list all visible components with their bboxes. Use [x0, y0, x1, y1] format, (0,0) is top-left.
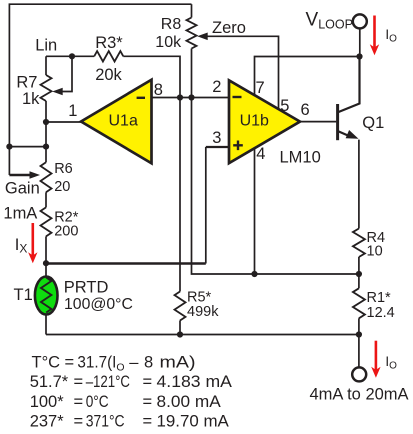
terminal VLOOP [353, 14, 367, 28]
svg-text:R8: R8 [161, 16, 182, 33]
wire top frame and left rail [9, 4, 191, 175]
wire R3 right lead [123, 56, 180, 97]
wire U1b pin 3 stub [206, 146, 229, 148]
transistor Q1 bar [336, 104, 339, 140]
svg-text:Q1: Q1 [362, 114, 384, 132]
svg-text:T1: T1 [14, 286, 33, 304]
wire R2 bottom lead [45, 236, 47, 276]
node R4-R1 junction [356, 271, 362, 277]
wire Lin node [46, 55, 94, 57]
op-amp U1b non-inverting input mark [233, 141, 243, 151]
svg-text:T°C=31.7(IO–8mA): T°C=31.7(IO–8mA) [32, 354, 196, 374]
node R8 lead junction [188, 94, 194, 100]
svg-text:12.4: 12.4 [367, 305, 395, 321]
current arrow Io bottom [375, 341, 378, 371]
svg-text:6: 6 [301, 101, 310, 119]
current arrow Ix head [28, 252, 37, 263]
wire output lead [358, 335, 360, 368]
svg-text:4mA to 20mA: 4mA to 20mA [310, 386, 409, 404]
wire Gain arrow line [9, 174, 30, 176]
current arrow Io top head [370, 44, 379, 55]
transistor Q1 emitter arrowhead [346, 130, 359, 139]
sensor T1 element [41, 278, 51, 313]
wire U1b pin 7 [255, 57, 360, 96]
terminal output [352, 367, 366, 381]
wire R8 net to mid rail [192, 98, 359, 275]
svg-text:LM10: LM10 [280, 149, 321, 167]
resistor R8 [187, 18, 197, 49]
wire VLOOP lead [359, 29, 361, 57]
wire R7 top lead [45, 56, 47, 75]
svg-text:3: 3 [212, 129, 221, 147]
wire R6-R2 lead [45, 192, 47, 207]
transistor Q1 collector [338, 57, 360, 113]
svg-text:499k: 499k [187, 304, 219, 320]
node pin 1 junction [43, 119, 49, 125]
wire Zero wiper arrowhead [197, 33, 208, 41]
node R7 chain junction [43, 144, 49, 150]
resistor R2 [41, 207, 52, 236]
svg-text:2: 2 [212, 78, 221, 96]
wire U1b pin 4 [254, 149, 256, 275]
svg-text:U1a: U1a [109, 113, 138, 130]
svg-text:Lin: Lin [35, 37, 57, 55]
resistor R7 [41, 75, 52, 101]
wire R8 top lead [191, 4, 193, 17]
svg-text:20k: 20k [95, 66, 122, 84]
svg-text:51.7*=–121°C=4.183 mA: 51.7*=–121°C=4.183 mA [30, 373, 232, 391]
resistor R4 [353, 229, 365, 258]
wire R7 wiper [56, 56, 72, 91]
wire U1a pin 8 to U1b pin 2 [152, 97, 230, 99]
resistor R6 [41, 162, 52, 192]
wire R1 bottom lead [358, 318, 360, 334]
svg-text:PRTD: PRTD [64, 279, 109, 297]
wire R5 top lead [179, 98, 181, 292]
wire Zero wiper [200, 36, 279, 109]
svg-text:Zero: Zero [212, 19, 246, 37]
node output junction [356, 331, 362, 337]
svg-text:4: 4 [256, 145, 265, 163]
op-amp U1a inverting input mark [137, 97, 145, 99]
svg-text:R6: R6 [54, 161, 73, 177]
svg-text:20: 20 [54, 179, 70, 195]
svg-text:1: 1 [68, 102, 77, 120]
svg-text:1k: 1k [22, 90, 40, 108]
current arrow Ix [31, 223, 34, 257]
svg-text:10: 10 [367, 243, 383, 259]
svg-text:100*=0°C=8.00 mA: 100*=0°C=8.00 mA [30, 393, 221, 411]
node R5 bottom junction [177, 331, 183, 337]
node R3 lead junction [177, 94, 183, 100]
wire U1b output to Q1 base [300, 121, 336, 123]
wire R7 wiper arrowhead [52, 88, 63, 96]
svg-text:1mA: 1mA [3, 204, 37, 222]
wire left rail to R7 chain [9, 146, 46, 148]
op-amp U1b [229, 80, 300, 163]
svg-text:R3*: R3* [95, 34, 123, 52]
wire R1 top lead [358, 274, 360, 288]
svg-text:R7: R7 [16, 73, 37, 91]
current arrow Io top [373, 16, 376, 49]
wire R7 bottom lead [45, 101, 47, 162]
svg-text:100@0°C: 100@0°C [64, 296, 133, 313]
svg-text:237*=371°C=19.70 mA: 237*=371°C=19.70 mA [30, 413, 229, 431]
svg-text:7: 7 [256, 79, 265, 97]
node left rail junction [6, 144, 12, 150]
svg-text:5: 5 [280, 97, 289, 115]
wire bottom rail [46, 334, 359, 336]
wire R5 bottom lead [179, 321, 181, 335]
svg-text:R1*: R1* [367, 290, 392, 306]
wire pin 3 net vertical [205, 147, 207, 264]
sensor T1 PRTD body [35, 277, 58, 315]
current arrow Io bottom head [371, 367, 380, 378]
svg-text:10k: 10k [155, 34, 182, 51]
wire U1a pin 1 output [46, 121, 81, 123]
svg-text:200: 200 [54, 224, 78, 240]
wire pin 3 net to T1 [46, 262, 206, 264]
wire Gain arrowhead [30, 171, 41, 179]
svg-text:VLOOP: VLOOP [306, 10, 353, 32]
node T1 top junction [43, 260, 49, 266]
wire Q1 emitter lead [358, 140, 360, 229]
svg-text:8: 8 [154, 81, 163, 99]
op-amp U1a [81, 80, 152, 164]
wire T1 bottom lead [45, 315, 47, 335]
node pin 4 junction [251, 271, 257, 277]
resistor R5 [175, 292, 186, 321]
wire R8 bottom lead [191, 49, 193, 98]
svg-text:R5*: R5* [187, 289, 212, 305]
node VLOOP junction [356, 53, 362, 59]
resistor R3 [94, 51, 123, 61]
svg-text:Gain: Gain [5, 180, 40, 198]
svg-text:IO: IO [385, 27, 397, 45]
transistor Q1 emitter [338, 131, 352, 137]
resistor R1 [353, 288, 365, 318]
svg-text:IX: IX [15, 236, 28, 256]
svg-text:U1b: U1b [240, 113, 269, 130]
wire R4 bottom lead [358, 257, 360, 274]
op-amp U1b inverting input mark [233, 96, 242, 98]
node Lin junction [69, 53, 75, 59]
svg-text:IO: IO [385, 354, 397, 372]
